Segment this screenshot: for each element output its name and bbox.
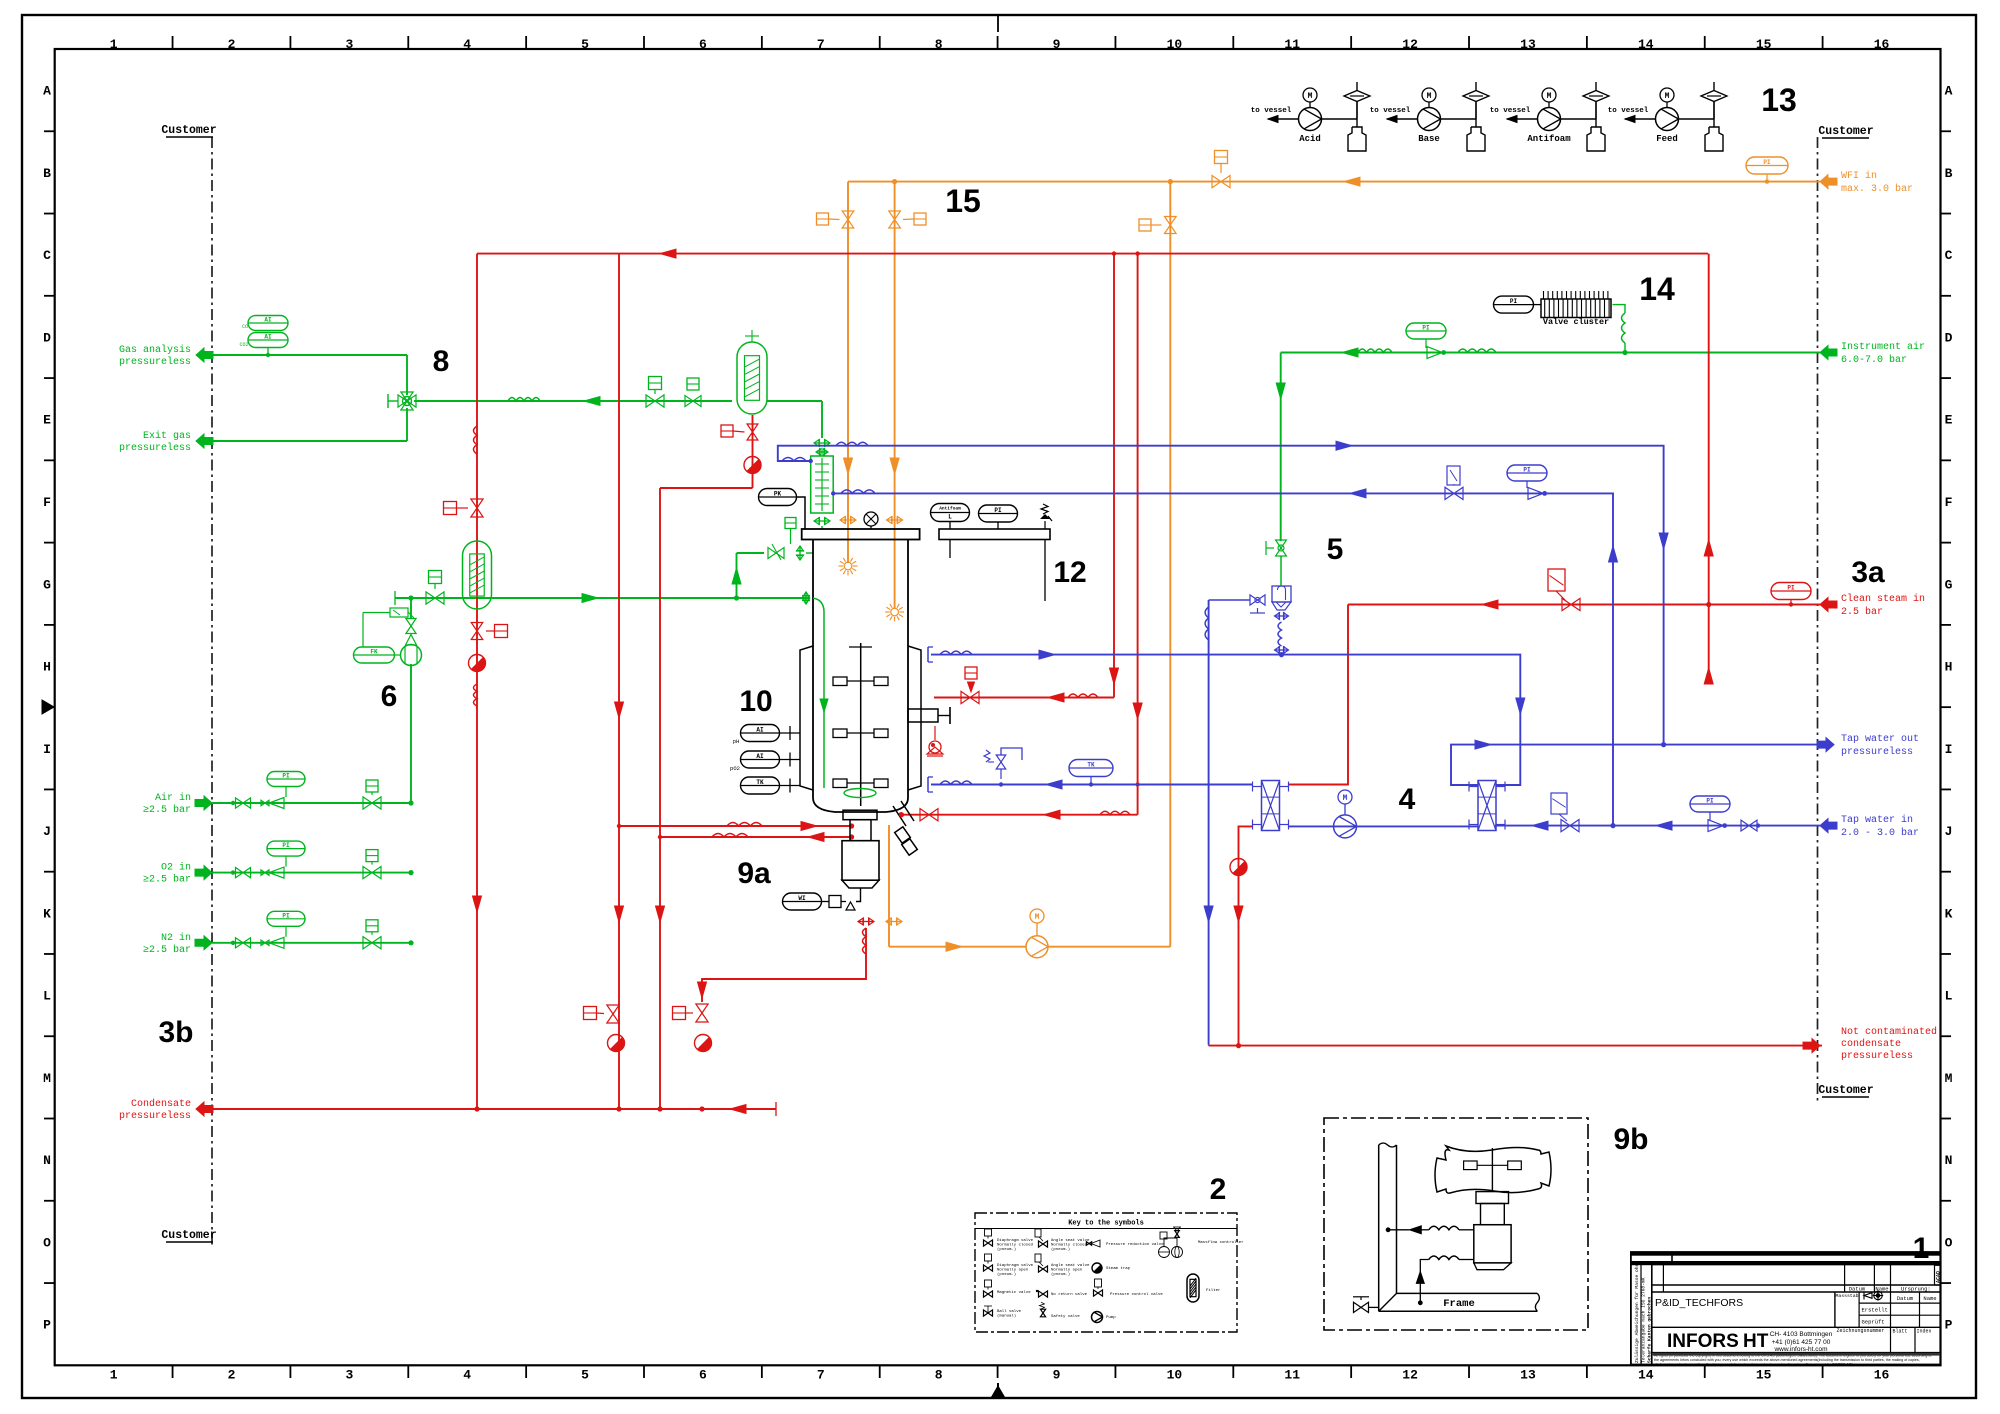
arrow condensate header flow [730,1105,746,1114]
pinch valve Acid [1322,118,1358,120]
hose 9b lower [1459,1259,1474,1261]
valve exhaust solenoid 1 [646,395,655,407]
svg-text:Condensate: Condensate [131,1098,191,1110]
instrument TK temperature [741,777,780,794]
pipe instrument air line [1281,352,1820,354]
fitting double tick break tank [1275,615,1289,617]
junction tap water out [1661,742,1666,747]
gauge vent [864,512,878,526]
exhaust cooler tube [811,456,834,513]
valve x477 solenoid [471,499,483,508]
pipe jacket steam inlet [934,697,1114,699]
pipe condenser cooling return [833,493,1613,825]
title block massstab grid [1835,1326,1941,1328]
svg-text:12: 12 [1402,1368,1418,1383]
fitting double tick spray1 [840,519,856,521]
svg-text:Toleranzangabe nach ISO 2768-m: Toleranzangabe nach ISO 2768-mK [1641,1277,1647,1363]
arrow x1709 up2 [1704,668,1713,684]
svg-text:PI: PI [282,842,290,849]
pipe exit gas line [212,440,407,442]
valve O2 in manual [231,870,235,874]
check valve cooling return [1528,487,1543,499]
svg-text:8: 8 [433,345,450,378]
arrow sparger riser up [732,568,741,584]
pump media [1026,936,1048,958]
instrument PI instrument air [1406,323,1446,339]
pinch valve Base [1441,118,1477,120]
svg-text:E: E [43,413,51,428]
svg-text:10: 10 [1167,1368,1183,1383]
svg-text:pressureless: pressureless [1841,746,1913,758]
svg-text:AI: AI [756,727,764,734]
title block top bars [1631,1252,1941,1255]
junction relief [999,782,1003,786]
svg-text:Safety valve: Safety valve [1051,1314,1080,1319]
agitator shaft [860,643,862,806]
svg-text:PI: PI [1422,325,1430,332]
arrow HX2 inlet flow [1532,821,1548,830]
safety relief head [1041,504,1048,514]
instrument PI head pressure [979,505,1018,522]
arrow Air in from customer [195,796,212,810]
svg-text:PI: PI [1510,298,1518,305]
title block drawing name cell [1834,1292,1836,1327]
arrow N2 in from customer [195,936,212,950]
svg-text:FK: FK [370,649,378,656]
svg-text:M: M [1308,92,1313,101]
svg-text:Key to the symbols: Key to the symbols [1068,1220,1144,1228]
pipe harvest line [901,814,1138,816]
svg-text:Frame: Frame [1443,1298,1475,1310]
instrument PI N2 in [267,911,305,926]
arrow x1114 down [1110,668,1119,684]
pipe WFI riser to media pump [1169,182,1171,947]
pipe condenser drain x752 [752,415,754,488]
arrow cooling return flow [1350,489,1366,498]
filter steam x477 [463,541,492,609]
valve sample block solenoid [696,1004,708,1013]
arrow HX1 drain down [1234,906,1243,922]
svg-text:No return valve: No return valve [1051,1292,1088,1297]
fitting double tick sample [858,921,874,923]
steam trap x752 [744,457,761,474]
hose squiggle exhaust [508,398,540,402]
pump tempering [1334,815,1357,838]
svg-text:M: M [1343,794,1348,803]
pipe sparger line [395,597,810,599]
svg-text:≥2.5 bar: ≥2.5 bar [143,944,191,956]
sample tube diagonal [893,801,917,855]
arrow sample drain down [698,982,707,998]
svg-text:Diaphragm valve: Diaphragm valve [997,1263,1034,1268]
arrow tap water out to customer [1817,738,1834,752]
valve jacket steam [961,691,970,703]
svg-text:D: D [43,330,51,345]
valve 9b supply [1354,1302,1362,1312]
svg-text:Erstellt: Erstellt [1862,1307,1888,1314]
customer boundary line right [1817,137,1819,1103]
svg-text:Feed: Feed [1656,134,1678,144]
instrument PI cooling return [1507,465,1547,481]
svg-text:10: 10 [1167,37,1183,52]
motor housing 9b [1435,1146,1551,1193]
instrument PI O2 in [267,841,305,856]
svg-text:M: M [1665,92,1670,101]
heat exchanger HX1 [1262,781,1280,831]
drain assembly flange [843,810,877,820]
customer boundary line left [211,137,213,1245]
title block bottom row [1652,1326,1835,1328]
bottle Base [1475,101,1477,127]
arrow clean steam flow [1482,600,1498,609]
valve O2 in solenoid [363,866,372,878]
svg-text:M: M [1427,92,1432,101]
pipe Base to vessel [1387,118,1418,120]
svg-text:14: 14 [1639,271,1675,307]
svg-text:2: 2 [1210,1173,1227,1206]
svg-text:1: 1 [110,37,118,52]
drain valve body [842,841,879,881]
svg-text:6: 6 [381,680,398,713]
arrow x1709 up1 [1704,540,1713,556]
arrow jacket in flow [1046,780,1062,789]
svg-text:9: 9 [1053,1368,1061,1383]
drain valve taper [842,880,879,888]
vortex ellipse [844,789,876,798]
svg-text:PI: PI [282,773,290,780]
motor Feed [1660,88,1674,102]
pipe WFI spray line 1 [847,182,849,563]
svg-text:WFI in: WFI in [1841,170,1877,182]
instrument PI valve cluster [1494,296,1534,313]
svg-text:7: 7 [817,37,825,52]
junction gas header top [408,595,413,600]
instrument antifoam probe [931,504,970,522]
pipe Acid to vessel [1268,118,1299,120]
steam trap sample [695,1035,712,1052]
svg-text:Scharfe Kanten gebrochen: Scharfe Kanten gebrochen [1647,1297,1653,1363]
svg-text:G: G [43,577,51,592]
svg-text:16: 16 [1874,1368,1890,1383]
svg-text:INFORS: INFORS [1667,1331,1739,1352]
pipe clean steam header [477,253,1708,255]
svg-text:1: 1 [1913,1232,1930,1265]
steam trap HX1 [1230,859,1247,876]
filter exhaust gas [737,342,767,414]
svg-text:to vessel: to vessel [1490,107,1531,115]
svg-text:M: M [1035,913,1040,922]
pipe tap water in header [1495,825,1820,827]
valve tap water angle [1561,819,1570,831]
valve Air in manual [231,801,235,805]
instrument FK gas flow controller [354,647,395,663]
valve spray2 solenoid [889,211,901,220]
arrow spray1 down [844,458,853,474]
legend box key to the symbols [975,1213,1237,1332]
svg-text:F: F [43,495,51,510]
svg-text:Normally closed: Normally closed [1051,1243,1088,1248]
arrow exhaust flow [584,397,600,406]
svg-text:Geprüft: Geprüft [1862,1319,1885,1326]
svg-text:N2 in: N2 in [161,932,191,944]
branch x619 to bottom valve steam-in [619,825,852,827]
instrument WI weight [783,893,822,910]
pipe tempering drain corner [1208,1045,1210,1046]
svg-text:(pneum.): (pneum.) [997,1247,1016,1252]
svg-text:photocopies, extracts as well: photocopies, extracts as well as the sto… [1654,1363,1853,1367]
pipe condenser cooling supply [778,446,1664,745]
svg-text:Clean steam in: Clean steam in [1841,593,1925,605]
pipe sparger riser [736,553,738,598]
svg-text:PI: PI [1706,798,1714,805]
pipe N2 in inlet line [212,942,411,944]
svg-text:3: 3 [345,37,353,52]
svg-text:D: D [1945,330,1953,345]
svg-text:15: 15 [945,183,981,219]
pipe WFI spray line 2 [894,182,896,609]
svg-text:Zulässige Abweichungen für Mas: Zulässige Abweichungen für Masse ohne [1634,1261,1640,1363]
svg-text:Angle seat valve: Angle seat valve [1051,1238,1090,1243]
junction x619 condensate [616,1106,621,1111]
svg-text:Pressure control valve: Pressure control valve [1110,1292,1163,1297]
valve x477 lower [471,623,483,632]
junction x477 condensate [474,1106,479,1111]
svg-text:TK: TK [1087,762,1095,769]
valve tap water in manual [1741,820,1749,831]
steam trap x619 [608,1035,625,1052]
pipe WFI header [848,181,1820,183]
vessel jacket left [800,646,813,790]
svg-text:Name: Name [1923,1295,1936,1302]
fitting double tick spray2 [887,519,903,521]
motor Base [1422,88,1436,102]
instrument PI Air in [267,772,305,787]
svg-text:to vessel: to vessel [1370,107,1411,115]
arrow sparger flow [582,594,598,603]
valve sparger solenoid [426,592,435,604]
arrow spray2 down [890,458,899,474]
frame floor beam 9b [1397,1292,1538,1294]
motor Antifoam [1542,88,1556,102]
svg-text:Valve cluster: Valve cluster [1543,317,1609,327]
svg-text:13: 13 [1761,82,1797,118]
svg-text:13: 13 [1520,37,1536,52]
instrument PI clean steam [1771,583,1811,600]
svg-text:AI: AI [264,334,272,341]
arrow cooling supply flow [1336,441,1352,450]
pressure reducer N2 in [269,937,284,948]
junction sample condensate [699,1106,704,1111]
svg-text:Antifoam: Antifoam [939,506,961,512]
pipe tap water out header [1451,745,1834,785]
svg-text:P: P [1945,1318,1953,1333]
svg-text:7: 7 [817,1368,825,1383]
hose squiggle instrument air left [1358,349,1392,353]
svg-text:14: 14 [1638,1368,1654,1383]
svg-text:B: B [1945,166,1953,181]
arrow WFI flow [1344,177,1360,186]
svg-text:Exit gas: Exit gas [143,430,191,442]
svg-text:M: M [1547,92,1552,101]
instrument PI tap water in [1690,796,1730,812]
dip tube sparger [813,598,824,788]
drain assembly neck [850,820,871,841]
svg-text:the agreements Infors conclude: the agreements Infors concluded with you… [1654,1358,1920,1362]
svg-text:8: 8 [935,37,943,52]
svg-text:H: H [1945,660,1953,675]
svg-text:Datum: Datum [1897,1295,1914,1302]
svg-text:ACAD: ACAD [1936,1271,1942,1283]
svg-text:Steam trap: Steam trap [1106,1266,1131,1271]
svg-text:Pump: Pump [1106,1316,1116,1320]
dosing pump Base [1418,108,1441,131]
svg-text:4: 4 [1399,783,1416,816]
hose squiggle jacket out [940,651,972,655]
arrow not contaminated to customer [1803,1039,1820,1053]
svg-text:2: 2 [228,37,236,52]
arrow tap water in from customer [1820,819,1837,833]
title block outer [1631,1252,1941,1365]
svg-text:13: 13 [1520,1368,1536,1383]
svg-text:pressureless: pressureless [119,442,191,454]
svg-text:4: 4 [463,1368,471,1383]
bottle Feed [1713,101,1715,127]
svg-text:(pneum.): (pneum.) [997,1272,1016,1277]
check valve tap water in [1708,820,1723,832]
gas header vertical [410,664,412,803]
hose squiggle x477 low [474,684,478,706]
svg-text:10: 10 [739,685,772,718]
svg-text:N: N [1945,1153,1953,1168]
hose 9b upper [1459,1229,1474,1231]
svg-text:9: 9 [1053,37,1061,52]
svg-text:pressureless: pressureless [119,1110,191,1122]
fitting double tick sparge [799,546,801,560]
arrow condensate to customer [196,1102,213,1116]
svg-text:K: K [43,906,51,921]
motor Acid [1303,88,1317,102]
pipe Antifoam to vessel [1507,118,1538,120]
svg-text:Customer: Customer [1818,1084,1873,1097]
svg-text:pressureless: pressureless [119,356,191,368]
arrow x1137 down [1133,703,1142,719]
svg-text:pH: pH [733,738,740,745]
arrow instrument air drop down [1276,383,1285,399]
dosing pump Feed [1656,108,1679,131]
valve Air in solenoid [363,797,372,809]
hose squiggle x477 [474,426,478,454]
pipe HX1 condensate drain [1239,826,1254,1045]
svg-text:I: I [1945,742,1953,757]
pinch valve Antifoam [1561,118,1597,120]
pipe not contaminated condensate [1209,1045,1822,1047]
svg-text:Acid: Acid [1299,134,1321,144]
svg-text:WI: WI [798,895,806,902]
arrow tap water out flow [1475,740,1491,749]
spray ball 1 [844,562,852,570]
svg-text:(pneum.): (pneum.) [1051,1272,1070,1277]
pinch valve Feed [1679,118,1715,120]
svg-text:Ursprung:: Ursprung: [1901,1286,1931,1293]
svg-text:O: O [1945,1235,1953,1250]
valve gas header angle [406,619,416,627]
junction x1137 blue tie [1135,782,1139,786]
svg-text:AI: AI [264,317,272,324]
svg-text:E: E [1945,413,1953,428]
instrument beam [939,529,1050,540]
valve harvest [920,809,929,821]
svg-text:L: L [948,514,952,521]
junction break tank [1279,652,1284,657]
svg-text:12: 12 [1053,556,1086,589]
svg-text:Not contaminated: Not contaminated [1841,1026,1937,1038]
hose squiggle break tank [1278,622,1282,646]
svg-text:B: B [43,166,51,181]
arrow jacket out corner down [1516,698,1525,714]
arrow tap water riser up [1609,546,1618,562]
valve cooling return [1445,487,1454,499]
hose squiggle harvest [1100,811,1130,815]
arrow steam header flow [660,249,676,258]
pipe instrument air drop [1280,353,1282,542]
hose squiggle cooling return [841,490,875,494]
arrow jacket out flow [1039,650,1055,659]
svg-text:2.0 - 3.0 bar: 2.0 - 3.0 bar [1841,827,1919,839]
svg-text:6.0-7.0 bar: 6.0-7.0 bar [1841,354,1907,366]
svg-text:PK: PK [774,491,782,498]
branch x660 to bottom valve steam-out [660,836,852,838]
svg-text:Antifoam: Antifoam [1527,134,1571,144]
drain outlet [856,888,861,902]
svg-text:A: A [1945,84,1953,99]
svg-text:≥2.5 bar: ≥2.5 bar [143,874,191,886]
junction O2 in header [408,870,413,875]
svg-text:Angle seat valve: Angle seat valve [1051,1263,1090,1268]
valve WFI riser solenoid [1165,217,1177,226]
valve WFI solenoid [1212,175,1221,187]
steam trap x477 [469,655,486,672]
instrument AI pO2 [741,751,780,768]
svg-text:Datum: Datum [1849,1286,1866,1293]
svg-text:Customer: Customer [161,1229,216,1242]
svg-text:J: J [43,824,51,839]
svg-text:11: 11 [1284,37,1300,52]
arrow media line flow [946,942,962,951]
arrow instrument air from customer [1820,346,1837,360]
svg-text:CO2: CO2 [239,342,248,348]
svg-text:Diaphragm valve: Diaphragm valve [997,1238,1034,1243]
svg-text:3: 3 [345,1368,353,1383]
instrument AI pH [741,725,780,742]
svg-text:Massstab: Massstab [1835,1293,1858,1299]
bottle Antifoam [1595,101,1597,127]
arrow gas analysis to customer [196,348,213,362]
junction sparger riser [734,595,739,600]
junction condensate out [1236,1043,1241,1048]
pipe tempering loop drop [1208,600,1210,1045]
svg-text:PI: PI [1763,159,1771,166]
pipe media line to harvest port [889,946,1026,948]
valve exhaust solenoid 2 [685,396,693,407]
heat exchanger HX2 [1478,781,1496,831]
svg-text:14: 14 [1638,37,1654,52]
motor tempering pump [1338,790,1352,804]
svg-text:Zeichnungsnummer: Zeichnungsnummer [1837,1328,1885,1334]
svg-text:Gas analysis: Gas analysis [119,344,191,356]
svg-text:9a: 9a [737,857,771,890]
svg-text:6: 6 [699,1368,707,1383]
nozzle bracket jacket in [927,777,929,792]
